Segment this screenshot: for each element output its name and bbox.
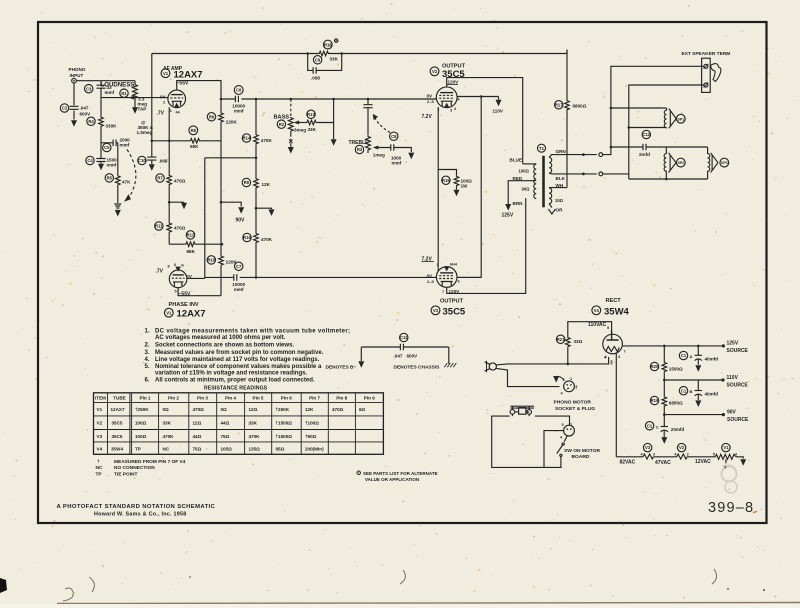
AC line plug [489, 363, 496, 370]
tube designator V4 [592, 306, 601, 315]
svg-text:2–5: 2–5 [427, 99, 434, 104]
svg-text:1.: 1. [145, 329, 150, 335]
svg-text:T1: T1 [539, 146, 545, 151]
tube designator V2 [430, 67, 439, 76]
svg-text:V4: V4 [97, 446, 103, 451]
potentiometer R1 3.3meg [134, 81, 136, 84]
SP3 magnet lines [711, 153, 718, 173]
svg-text:470K: 470K [261, 237, 273, 242]
svg-text:Pin 3: Pin 3 [197, 396, 208, 401]
svg-text:75Ω: 75Ω [221, 434, 230, 439]
svg-text:Pin 1: Pin 1 [140, 396, 151, 401]
svg-text:.7V: .7V [156, 269, 164, 275]
svg-text:BLUE: BLUE [510, 158, 523, 163]
triode V1a envelope [168, 90, 186, 108]
svg-text:R8: R8 [191, 128, 197, 133]
svg-text:7: 7 [442, 290, 444, 294]
capacitor C7 10000mmf [234, 274, 237, 281]
svg-text:C12: C12 [642, 132, 650, 137]
svg-text:.068: .068 [311, 76, 320, 81]
resistor R19 6800ohm [663, 380, 665, 396]
ground arrow below C4 [100, 162, 102, 164]
svg-text:Pin 2: Pin 2 [168, 396, 179, 401]
svg-text:9: 9 [724, 466, 726, 470]
triode V1b envelope [169, 270, 187, 288]
svg-text:BLK: BLK [556, 176, 566, 181]
tube designator V1 [161, 69, 170, 78]
B- symbol [360, 347, 362, 361]
capacitor C3 33mmf [100, 81, 102, 98]
svg-text:Pin 6: Pin 6 [281, 396, 292, 401]
heater series wire V2 to V3 [437, 107, 439, 271]
terminal 1 [704, 64, 708, 68]
svg-text:mmf: mmf [120, 143, 130, 148]
resistor R6 220K [220, 99, 222, 112]
svg-text:6.: 6. [145, 377, 150, 383]
svg-text:95Ω: 95Ω [276, 446, 285, 451]
table row V2 [97, 421, 320, 426]
svg-text:DC voltage measurements taken: DC voltage measurements taken with vacuu… [155, 329, 350, 335]
resistor R13 33K [305, 122, 308, 124]
svg-text:C8: C8 [391, 134, 397, 139]
svg-text:RECT: RECT [606, 298, 622, 304]
svg-text:NC: NC [96, 465, 103, 471]
node dots R18/C9 [306, 52, 309, 55]
svg-text:5: 5 [607, 326, 609, 330]
scan mark: black blob left edge bottom [0, 578, 7, 593]
capacitor C6 10000mmf [235, 96, 238, 103]
AC wire top prong to rectifier heater [496, 357, 608, 365]
V4 cathode zigzag [606, 347, 620, 352]
svg-text:C1: C1 [681, 388, 687, 393]
svg-text:†100Ω: †100Ω [305, 421, 319, 426]
svg-text:RESISTANCE READINGS: RESISTANCE READINGS [204, 385, 268, 391]
svg-text:8: 8 [168, 265, 170, 269]
svg-text:Pin 5: Pin 5 [253, 396, 264, 401]
V2 grid dashes [439, 97, 454, 99]
svg-text:C11: C11 [400, 335, 408, 340]
svg-text:V2: V2 [97, 421, 103, 426]
svg-text:6: 6 [458, 280, 460, 284]
svg-text:TP: TP [135, 446, 141, 451]
svg-text:6: 6 [458, 98, 460, 102]
svg-text:5: 5 [562, 423, 564, 427]
svg-text:1500Ω: 1500Ω [669, 367, 683, 372]
svg-text:Pin 7: Pin 7 [309, 396, 320, 401]
resistance readings table frame [94, 393, 384, 455]
svg-text:40mfd: 40mfd [705, 392, 719, 397]
V1b plate bar [173, 274, 184, 276]
svg-text:variation of ±15% in voltage a: variation of ±15% in voltage and resista… [155, 371, 308, 377]
svg-text:470Ω: 470Ω [174, 179, 186, 184]
svg-text:470Ω: 470Ω [332, 407, 344, 412]
feedback wire to R17 [342, 50, 567, 54]
BLK lead [549, 172, 597, 175]
svg-text:3: 3 [687, 452, 689, 456]
svg-text:R13: R13 [307, 112, 315, 117]
chassis dashes and ground arrow below R5 [114, 204, 121, 208]
V1 heater element [715, 454, 736, 459]
SP2 voice coil [664, 147, 666, 179]
phono motor socket [564, 381, 575, 392]
svg-text:33K: 33K [249, 421, 258, 426]
svg-text:mmf: mmf [107, 163, 117, 168]
svg-text:V4: V4 [594, 308, 600, 313]
90V supply tap arrow [220, 201, 223, 204]
table row V4 [97, 446, 325, 451]
svg-text:600V: 600V [407, 354, 419, 359]
treble series capacitor [367, 99, 369, 136]
svg-text:V3: V3 [97, 434, 103, 439]
svg-text:TIE POINT: TIE POINT [114, 472, 138, 478]
table horizontal rules [94, 402, 384, 442]
dashed gang line C5 to ground [126, 150, 136, 201]
resistor R15 100ohm 1W [438, 170, 456, 176]
svg-text:1: 1 [570, 377, 572, 381]
resistor R12 68K [169, 243, 185, 245]
svg-text:R16: R16 [243, 235, 251, 240]
V4 plate bar [607, 330, 619, 340]
svg-text:OUTPUT: OUTPUT [440, 299, 464, 305]
motor board plug [564, 425, 575, 436]
svg-text:470K: 470K [249, 434, 261, 439]
svg-text:35C5: 35C5 [112, 421, 123, 426]
resistor R11 470ohm [168, 202, 170, 222]
switch SW on motor board [564, 436, 567, 442]
BLUE lead from V2 plate [523, 163, 537, 165]
border frame [38, 22, 767, 523]
table vertical rules [108, 393, 356, 455]
resistor R14 470K [255, 99, 257, 134]
rail wire [205, 157, 256, 159]
svg-text:7: 7 [624, 350, 626, 354]
svg-text:12AX7: 12AX7 [111, 407, 125, 412]
V1a cathode [172, 101, 183, 106]
svg-text:6: 6 [174, 263, 176, 267]
svg-text:5.: 5. [145, 364, 150, 370]
svg-text:12AX7: 12AX7 [174, 70, 203, 81]
speaker designator SP1 [676, 114, 685, 123]
svg-text:C1: C1 [681, 353, 687, 358]
V2 plate wire to T1 primary top [447, 78, 523, 164]
SP1 bottom wire [629, 127, 667, 129]
RED B+ tap with 125V arrow [508, 181, 536, 204]
svg-text:330K: 330K [106, 124, 118, 129]
svg-text:12AX7: 12AX7 [177, 309, 206, 320]
filter capacitor C1-C 20mfd [663, 415, 665, 427]
table header row [95, 396, 375, 401]
svg-text:47K: 47K [122, 180, 131, 185]
R3 wiper wire through C8 to ground [376, 148, 411, 153]
V2 screen dashes [439, 94, 454, 96]
wire left terminal socket top [603, 147, 611, 155]
SP2/SP3 box top wire [664, 146, 708, 148]
feedback wire from R18/C9 to cathode node [151, 54, 153, 141]
potentiometer R2 3meg [288, 117, 293, 132]
bass control designator R2 [277, 120, 285, 128]
svg-text:R10: R10 [207, 258, 215, 263]
heater string wire [616, 456, 643, 458]
svg-text:A PHOTOFACT STANDARD NOTATION: A PHOTOFACT STANDARD NOTATION SCHEMATIC [57, 504, 216, 510]
svg-text:10Ω: 10Ω [555, 198, 564, 203]
V2 heater arrow [444, 103, 450, 108]
V2 screen wire with 110V arrow [457, 96, 498, 98]
svg-text:OR: OR [556, 208, 564, 213]
filter capacitor C1-A 40mfd [697, 346, 699, 355]
coupling wire phase inv to V3 grid [187, 277, 205, 279]
V3 grid dashes [439, 278, 454, 280]
110V source rail [664, 379, 723, 381]
svg-text:2–5: 2–5 [427, 279, 434, 284]
svg-text:R20: R20 [651, 364, 659, 369]
V1b grid dashes [172, 277, 185, 279]
tube designator V3 [431, 306, 440, 315]
svg-text:1.5meg: 1.5meg [137, 130, 153, 135]
terminal 2 [704, 83, 708, 87]
scan mark: dots bottom [727, 588, 729, 590]
svg-text:125V: 125V [502, 213, 514, 219]
svg-text:NO CONNECTION: NO CONNECTION [114, 465, 155, 471]
svg-text:1: 1 [570, 422, 572, 426]
svg-text:C9: C9 [315, 57, 321, 62]
svg-text:†250K: †250K [135, 407, 149, 412]
svg-text:6800Ω: 6800Ω [669, 401, 683, 406]
svg-text:12Ω: 12Ω [193, 421, 202, 426]
ground tap at R7 bottom [168, 201, 171, 204]
ground tap at R9 bottom [255, 207, 258, 210]
svg-text:AC voltages measured at 1000 o: AC voltages measured at 1000 ohms per vo… [155, 335, 286, 341]
svg-text:SP1: SP1 [677, 117, 684, 121]
svg-text:†250K: †250K [276, 407, 290, 412]
screen B+ vertical to V3 plate [457, 97, 481, 278]
svg-text:3: 3 [653, 452, 655, 456]
svg-text:V1: V1 [723, 445, 729, 450]
svg-text:125V: 125V [727, 341, 739, 347]
V1b cathode [173, 282, 184, 287]
scan mark: curl bottom left 2 [89, 577, 94, 592]
T1 secondary upper winding [549, 157, 552, 173]
svg-text:1: 1 [437, 263, 439, 267]
svg-text:2mfd: 2mfd [639, 152, 650, 157]
SP1 top wire [610, 107, 613, 110]
svg-text:A: A [690, 354, 693, 359]
svg-text:R4: R4 [88, 119, 94, 124]
resistor R9 12K [255, 158, 257, 178]
svg-text:100Ω: 100Ω [135, 421, 147, 426]
heater center tap pin 9 [725, 459, 727, 463]
heater wire from V4 pin 6 [615, 353, 617, 457]
capacitor C5 2000mmf [101, 142, 113, 144]
svg-text:90V: 90V [236, 218, 246, 224]
svg-text:R15: R15 [442, 178, 450, 183]
speaker designator SP3 [720, 158, 729, 167]
svg-text:GRN: GRN [556, 149, 567, 154]
svg-text:4.: 4. [145, 357, 150, 363]
scan mark: curl bottom left 1 [63, 588, 73, 601]
svg-text:−55V: −55V [179, 291, 191, 297]
svg-text:0V: 0V [427, 274, 434, 279]
svg-text:C10: C10 [138, 158, 146, 163]
svg-text:110VAC: 110VAC [588, 322, 607, 328]
svg-text:1W: 1W [461, 184, 469, 189]
chassis arrow at socket pin 5 [557, 376, 564, 380]
svg-text:6Ω: 6Ω [359, 407, 366, 412]
svg-text:R21: R21 [557, 337, 565, 342]
svg-text:20mfd: 20mfd [671, 427, 685, 432]
svg-text:40mfd: 40mfd [705, 357, 719, 362]
svg-text:C2: C2 [62, 106, 68, 111]
resistor R17 6800ohm [566, 50, 568, 100]
svg-text:44Ω: 44Ω [193, 434, 202, 439]
svg-text:Nominal tolerance of component: Nominal tolerance of component values ma… [155, 364, 322, 370]
svg-text:35W4: 35W4 [604, 307, 630, 318]
svg-text:All controls at minimum, prop: All controls at minimum, proper output l… [155, 377, 315, 383]
svg-text:SOURCE: SOURCE [727, 383, 749, 389]
svg-text:82VAC: 82VAC [620, 460, 636, 466]
V3 plate bar [440, 272, 453, 274]
SP3 voice coil [708, 147, 710, 179]
capacitor C2 .047 600V [73, 83, 75, 120]
svg-text:SP2: SP2 [677, 161, 684, 165]
resistor R10 220K [220, 158, 222, 256]
V2 heater element [677, 454, 687, 459]
wire terminal1 to left vertical [611, 66, 704, 147]
terminal strip [702, 58, 711, 92]
svg-text:135Ω: 135Ω [249, 446, 261, 451]
svg-text:†1500Ω: †1500Ω [276, 434, 293, 439]
R1 tap arrow [134, 105, 136, 108]
svg-text:C4: C4 [87, 158, 93, 163]
V1b grid cap arrow [175, 267, 181, 272]
svg-text:33Ω: 33Ω [574, 339, 583, 344]
tube designator V1 [164, 308, 173, 317]
V1a plate bar [171, 94, 182, 96]
wire [653, 456, 676, 458]
svg-text:G: G [181, 264, 184, 268]
T1 primary winding [534, 164, 536, 198]
svg-text:R2: R2 [279, 122, 285, 127]
svg-text:MEASURED FROM PIN 7 OF V4: MEASURED FROM PIN 7 OF V4 [114, 459, 186, 465]
svg-text:V2: V2 [432, 69, 438, 74]
svg-text:R11: R11 [155, 224, 163, 229]
treble control designator R3 [355, 145, 363, 153]
rectifier V4 envelope [603, 334, 623, 354]
svg-text:3.: 3. [145, 350, 150, 356]
svg-text:.068: .068 [159, 159, 168, 164]
svg-text:C3: C3 [86, 86, 92, 91]
svg-text:110V: 110V [727, 375, 739, 381]
scan mark: curl bottom middle [400, 570, 405, 584]
svg-text:6: 6 [611, 362, 613, 366]
V1a grid dashes [170, 97, 183, 99]
svg-text:12Ω: 12Ω [249, 407, 258, 412]
resistor R7 470ohm [168, 141, 170, 175]
WH tap to R17 [549, 187, 567, 189]
svg-text:470K: 470K [261, 138, 273, 143]
svg-text:mmf: mmf [234, 109, 244, 114]
capacitor C4 1500mmf [96, 159, 105, 162]
svg-text:SW ON MOTOR: SW ON MOTOR [564, 448, 601, 454]
svg-text:−55V: −55V [177, 80, 189, 86]
svg-text:200(Min): 200(Min) [305, 446, 324, 451]
svg-text:Pin 8: Pin 8 [336, 396, 347, 401]
svg-text:3: 3 [575, 385, 577, 389]
svg-text:V3: V3 [433, 308, 439, 313]
svg-text:.047: .047 [80, 106, 89, 111]
dashed link main line to bass pot [290, 99, 292, 117]
svg-text:R17: R17 [555, 102, 563, 107]
paper bottom edge shadow line [57, 603, 800, 604]
capacitor C12 2mfd [610, 146, 613, 149]
svg-text:90Ω: 90Ω [522, 186, 531, 191]
resistor R4 330K [100, 98, 102, 117]
pentode V2 envelope [436, 87, 457, 108]
svg-text:3meg: 3meg [294, 128, 306, 133]
scan mark: curl bottom right [712, 569, 717, 584]
heater string chassis arrow [736, 457, 743, 459]
table row V3 [97, 434, 317, 439]
svg-text:WH: WH [556, 183, 564, 188]
resistor R16 470K [255, 208, 257, 233]
svg-text:V3: V3 [645, 445, 651, 450]
svg-text:RED: RED [513, 176, 523, 181]
V3 cathode wire to T1 primary bottom [447, 198, 526, 293]
svg-text:C6: C6 [236, 88, 242, 93]
SP1 magnet lines [669, 109, 676, 129]
svg-text:R18: R18 [324, 42, 332, 47]
svg-text:BOARD: BOARD [572, 454, 590, 460]
resistor R20 1500ohm [663, 346, 665, 362]
phono motor symbol [510, 406, 534, 408]
svg-text:R6: R6 [209, 114, 215, 119]
capacitor C11 .047 600V [400, 333, 408, 341]
wire plug to motor [544, 431, 564, 468]
svg-text:6H4: 6H4 [450, 263, 458, 267]
wire left terminal socket bottom [603, 173, 629, 175]
scan smudge near page number [722, 465, 738, 493]
svg-text:2.: 2. [145, 342, 150, 348]
svg-text:NC: NC [163, 446, 170, 451]
svg-text:0Ω: 0Ω [163, 407, 170, 412]
svg-text:C7: C7 [236, 264, 242, 269]
resistor R18 33K [319, 51, 329, 56]
svg-text:R5: R5 [107, 176, 113, 181]
svg-text:3: 3 [618, 355, 620, 359]
dashed pointer C8 to treble cap [374, 117, 390, 133]
svg-text:DENOTES B−: DENOTES B− [326, 364, 357, 370]
cathode node wire R8 68K [168, 107, 170, 141]
transformer designator T1 [538, 144, 546, 152]
svg-text:120V: 120V [448, 80, 460, 85]
GRN lead [549, 155, 597, 158]
svg-text:100Ω: 100Ω [519, 169, 530, 174]
svg-text:†: † [97, 459, 100, 465]
svg-text:R1: R1 [121, 91, 127, 96]
svg-text:†90Ω: †90Ω [305, 434, 317, 439]
svg-text:33K: 33K [330, 57, 339, 62]
svg-text:B: B [690, 389, 693, 394]
svg-text:470Ω: 470Ω [193, 407, 205, 412]
svg-text:PHONO MOTOR: PHONO MOTOR [554, 400, 592, 406]
svg-text:R19: R19 [651, 398, 659, 403]
svg-text:6800Ω: 6800Ω [573, 104, 587, 109]
svg-text:TAP: TAP [138, 107, 147, 112]
left vertical to phase inv grid [204, 158, 206, 279]
svg-text:SEE PARTS LIST FOR ALTERNATE: SEE PARTS LIST FOR ALTERNATE [363, 471, 438, 476]
T1 core [542, 156, 545, 208]
resistor R21 33ohm [567, 348, 569, 364]
svg-text:Pin 9: Pin 9 [364, 396, 375, 401]
